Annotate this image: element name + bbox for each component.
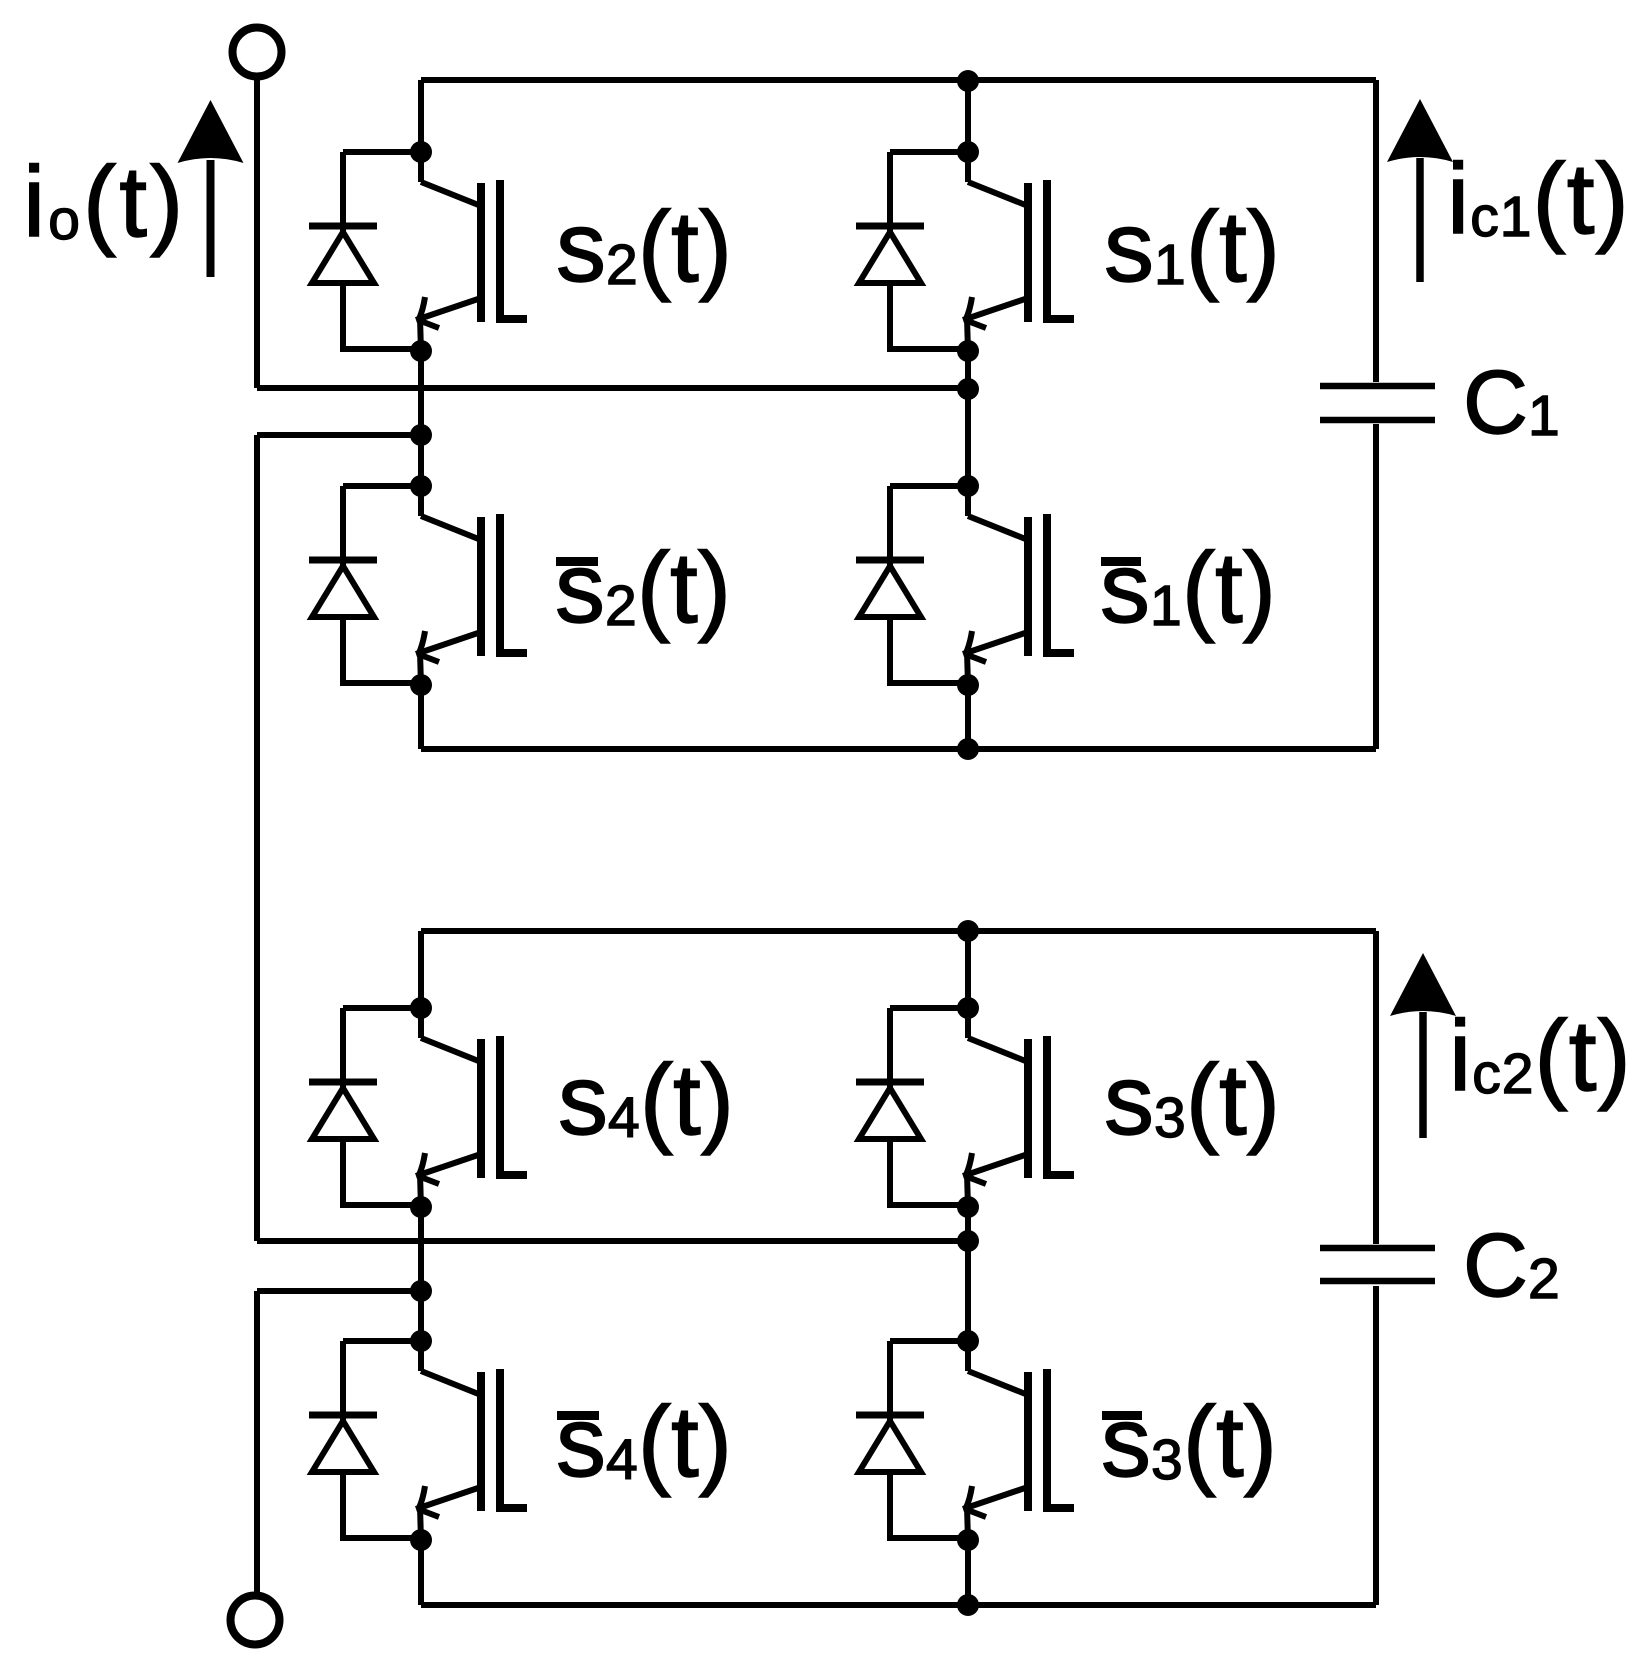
node: s-bar-3 bottom rail dot <box>957 1594 979 1616</box>
svg-text:s2(t): s2(t) <box>555 532 731 644</box>
transistor s-bar-2 (IGBT with antiparallel diode) <box>309 475 527 696</box>
wire: s-bar-3 emitter to bottom rail <box>965 1540 971 1605</box>
wire: rail from left column to s3/s-bar-3 midpoint <box>257 1238 968 1244</box>
wire: rail from s4/s-bar-4 midpoint to left column <box>257 1288 421 1294</box>
wire: cell 2 right rail lower (from C2 to bottom rail) <box>1373 1286 1379 1605</box>
wire: right leg mid vertical cell 2 <box>965 1207 971 1341</box>
wire: left column vertical to terminal B <box>254 1291 260 1596</box>
node: s4/s-bar-4 midpoint tap dot <box>410 1280 432 1302</box>
svg-text:s2(t): s2(t) <box>556 191 732 303</box>
node: s3 top rail dot <box>957 920 979 942</box>
transistor s4 (IGBT with antiparallel diode) <box>309 997 527 1218</box>
wire: left leg mid vertical cell 1 <box>418 351 424 486</box>
wire: cell 1 top rail <box>421 77 1376 83</box>
node: s1 top rail dot <box>957 70 979 92</box>
arrow: output current io(t) <box>178 100 244 277</box>
capacitor C1 <box>1320 386 1435 420</box>
capacitor C2 <box>1320 1248 1435 1281</box>
transistor s3 (IGBT with antiparallel diode) <box>856 997 1074 1218</box>
wire: s-bar-4 emitter to bottom rail <box>418 1540 424 1605</box>
wire: cell 2 right rail upper (to C2) <box>1373 931 1379 1244</box>
wire: cell 2 s3 leg drop from top rail <box>965 931 971 1008</box>
wire: s-bar-1 emitter to bottom rail <box>965 685 971 749</box>
wire: cell 1 bottom rail <box>421 746 1376 752</box>
arrow: capacitor current ic2(t) <box>1390 953 1456 1138</box>
node: s3/s-bar-3 midpoint tap dot <box>957 1230 979 1252</box>
wire: rail from terminal A to s1/s-bar-1 midpoint <box>257 385 968 391</box>
arrow: capacitor current ic1(t) <box>1387 99 1453 282</box>
wire: cell 2 top rail <box>421 928 1376 934</box>
wire: cell 2 top-left drop to s4 collector <box>418 931 424 1008</box>
wire: cell 2 bottom rail <box>421 1602 1376 1608</box>
svg-text:s1(t): s1(t) <box>1100 532 1276 644</box>
svg-text:s1(t): s1(t) <box>1104 191 1280 303</box>
terminal A (top output terminal) <box>233 28 282 77</box>
svg-text:s4(t): s4(t) <box>556 1386 732 1498</box>
transistor s-bar-4 (IGBT with antiparallel diode) <box>309 1330 527 1551</box>
wire: left leg mid vertical cell 2 <box>418 1207 424 1341</box>
wire: cell 1 top-left drop to s2 collector <box>418 80 424 152</box>
terminal B (bottom output terminal) <box>231 1596 280 1645</box>
node: s1/s-bar-1 midpoint tap dot <box>957 378 979 400</box>
transistor s2 (IGBT with antiparallel diode) <box>309 141 527 362</box>
node: s2/s-bar-2 midpoint tap dot <box>410 424 432 446</box>
label s-bar-4(t) overbar <box>557 1411 599 1420</box>
node: s-bar-1 bottom rail dot <box>957 738 979 760</box>
wire: rail from s2/s-bar-2 midpoint to left column <box>257 432 421 438</box>
svg-text:s3(t): s3(t) <box>1101 1386 1277 1498</box>
wire: cell 1 right rail lower (from C1 to bottom rail) <box>1373 424 1379 749</box>
label s-bar-3(t) overbar <box>1102 1411 1142 1420</box>
transistor s-bar-1 (IGBT with antiparallel diode) <box>856 475 1074 696</box>
label s-bar-2(t) overbar <box>556 557 598 566</box>
wire: s-bar-2 emitter to bottom rail <box>418 685 424 749</box>
svg-text:io(t): io(t) <box>23 146 186 258</box>
wire: left column vertical linking cell 1 to cell 2 <box>254 435 260 1241</box>
label s-bar-1(t) overbar <box>1101 557 1141 566</box>
transistor s1 (IGBT with antiparallel diode) <box>856 141 1074 362</box>
svg-text:s3(t): s3(t) <box>1104 1044 1280 1156</box>
svg-text:s4(t): s4(t) <box>558 1044 734 1156</box>
wire: cell 1 right rail upper (to C1) <box>1373 80 1379 382</box>
transistor s-bar-3 (IGBT with antiparallel diode) <box>856 1330 1074 1551</box>
wire: output terminal A drop <box>254 79 260 388</box>
wire: cell 1 s1 leg drop from top rail <box>965 80 971 152</box>
wire: right leg mid vertical cell 1 <box>965 352 971 486</box>
